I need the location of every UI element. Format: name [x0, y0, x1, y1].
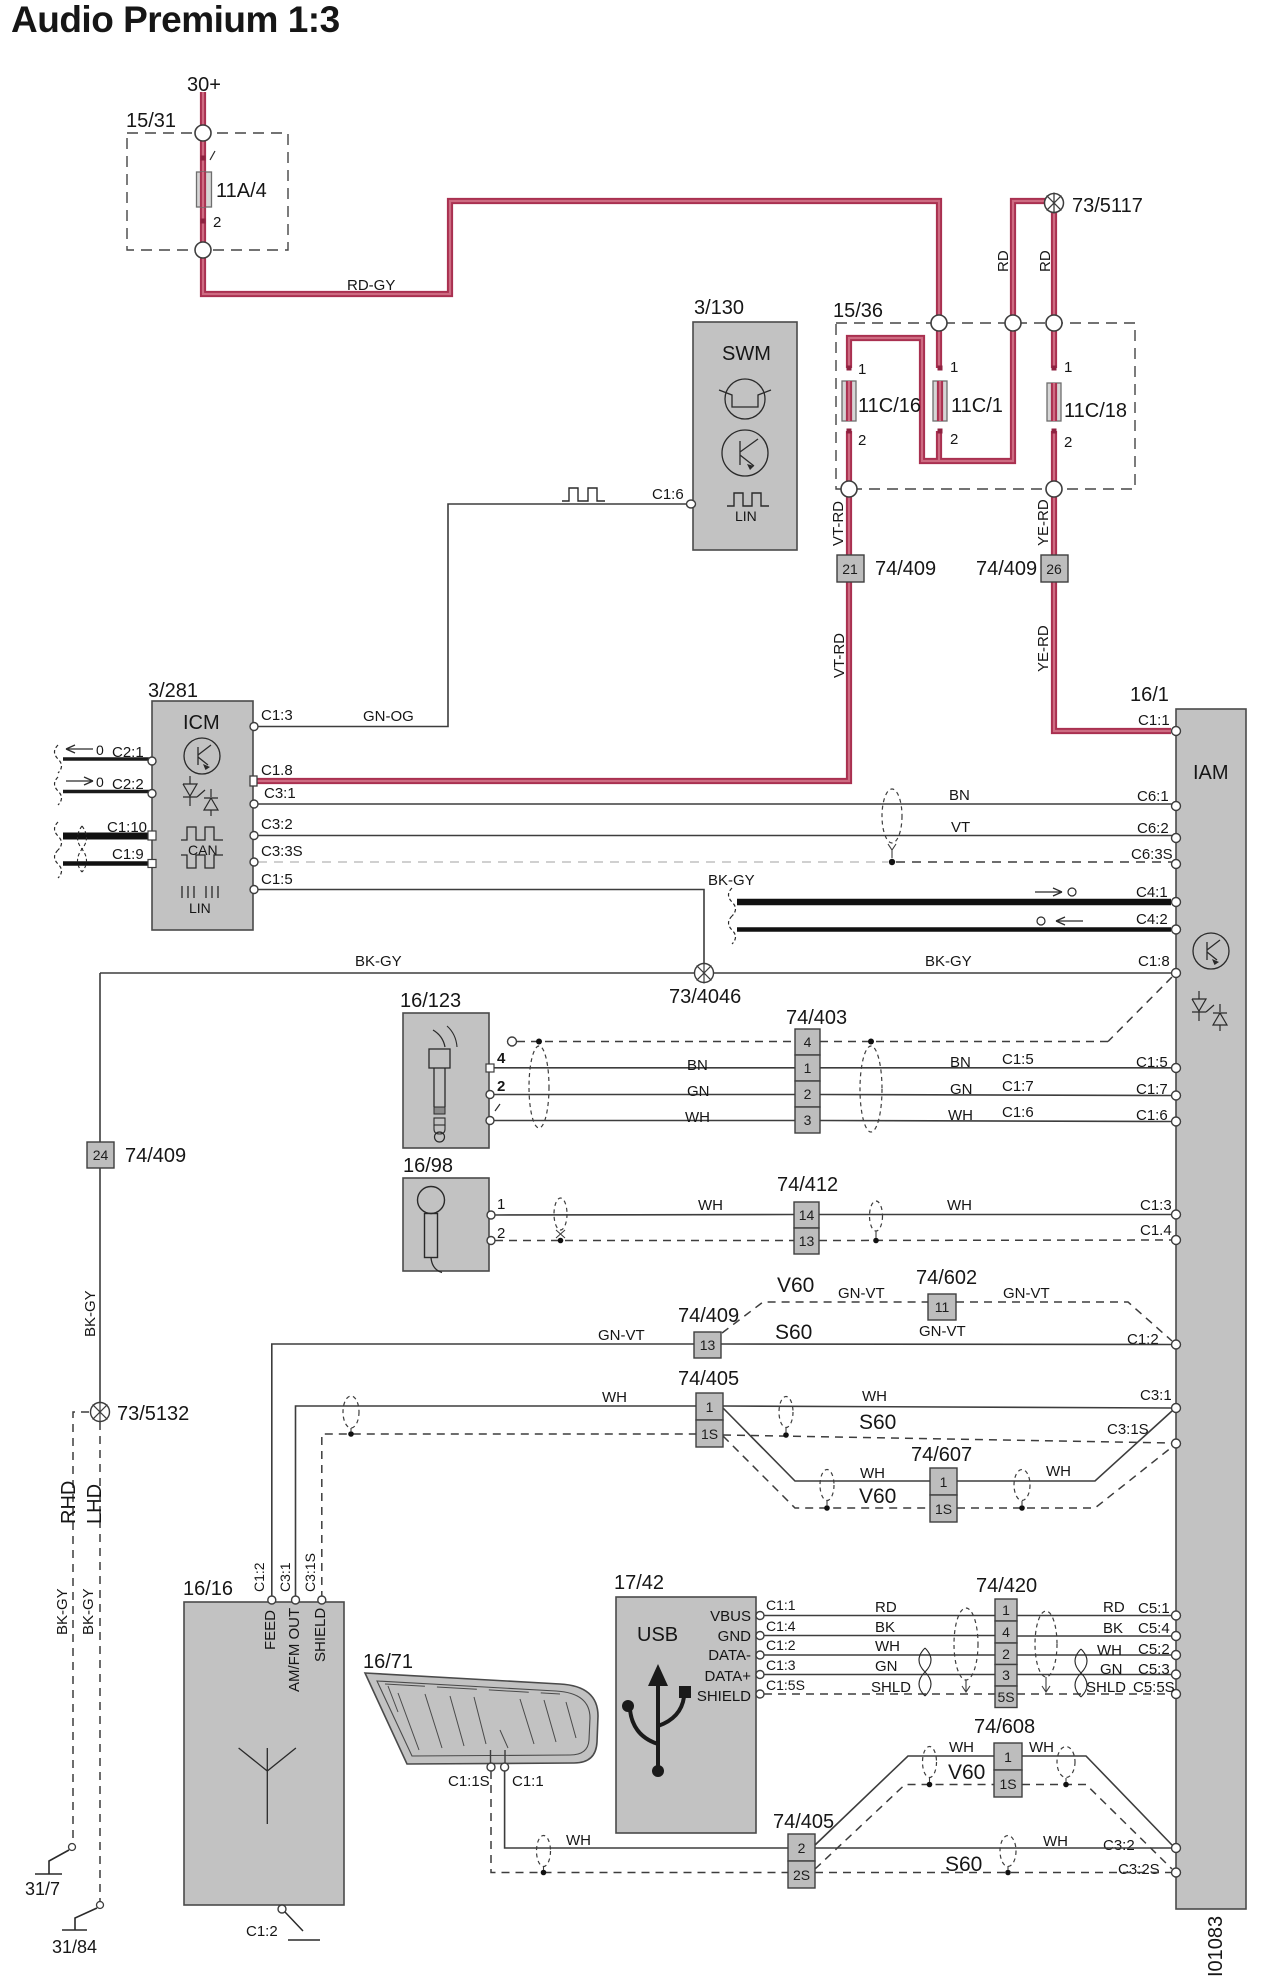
svg-text:74/409: 74/409 — [678, 1305, 739, 1327]
ICM left wire C1:10 (CAN-H) — [55, 819, 153, 850]
ICM transistor icon — [184, 738, 220, 774]
svg-text:GND: GND — [718, 1628, 752, 1645]
svg-text:2: 2 — [950, 431, 958, 448]
svg-text:31/84: 31/84 — [52, 1937, 97, 1957]
svg-text:0: 0 — [96, 742, 104, 758]
svg-text:AM/FM OUT: AM/FM OUT — [286, 1608, 303, 1692]
AUX pin 2 — [486, 1078, 505, 1099]
SWM limiter icon — [719, 379, 771, 419]
wire shield V60 branch via 74/607 (dashed) — [723, 1436, 1172, 1508]
svg-text:C1:5S: C1:5S — [766, 1677, 805, 1693]
svg-text:SHLD: SHLD — [1086, 1679, 1126, 1696]
svg-text:2: 2 — [858, 432, 866, 449]
SWM LIN icon — [727, 493, 769, 524]
wire LHD dashed to ground 31/84 — [80, 1422, 106, 1901]
wire BK-GY ICM C1:5 down to splice 73/4046 — [258, 872, 755, 963]
svg-text:BK-GY: BK-GY — [925, 953, 972, 970]
svg-text:LIN: LIN — [735, 508, 757, 524]
wire WH S60 74/405 pin2 to IAM C3:2 — [815, 1833, 1171, 1876]
svg-text:74/409: 74/409 — [976, 558, 1037, 580]
splice 73/4046 — [669, 963, 741, 1009]
wire CAN C4:1 to IAM — [729, 888, 1172, 916]
svg-text:LHD: LHD — [84, 1484, 106, 1524]
16/71 pin C1:1 — [501, 1763, 544, 1790]
ground 31/84 — [52, 1902, 104, 1958]
node circle 15/36 top c — [1046, 315, 1062, 331]
16/16 pin C3:1 — [277, 1562, 303, 1692]
wire RHD dashed to ground 31/7 — [54, 1412, 89, 1843]
svg-text:2: 2 — [1002, 1646, 1010, 1662]
svg-text:LIN: LIN — [189, 900, 211, 916]
svg-text:74/607: 74/607 — [911, 1444, 972, 1466]
shield ellipse left of 74/403 — [529, 1046, 549, 1128]
svg-text:WH: WH — [1097, 1642, 1122, 1659]
IAM transistor icon — [1193, 933, 1229, 969]
svg-text:WH: WH — [875, 1638, 900, 1655]
relay box 15/36 (dashed enclosure) — [833, 300, 1135, 489]
IAM pin C1:5 — [1136, 1054, 1181, 1073]
svg-text:2: 2 — [1064, 434, 1072, 451]
labels C1:5 C1:7 C1:6 — [1002, 1051, 1034, 1121]
svg-text:WH: WH — [948, 1107, 973, 1124]
svg-text:C3:1S: C3:1S — [1107, 1421, 1149, 1438]
svg-text:21: 21 — [842, 561, 858, 577]
svg-text:74/602: 74/602 — [916, 1267, 977, 1289]
svg-text:WH: WH — [947, 1197, 972, 1214]
ICM left wire C2:1 — [55, 742, 153, 773]
wire BN aux right to IAM C1:5 — [820, 1054, 1172, 1071]
IAM pin C4:1 — [1136, 884, 1181, 907]
IAM pin C3:2 — [1103, 1837, 1181, 1854]
svg-text:C1:3: C1:3 — [1140, 1197, 1172, 1214]
twisted pair symbol USB data left — [919, 1648, 931, 1696]
svg-text:BK: BK — [875, 1619, 895, 1636]
shield ellipse V60 bottom right — [1057, 1747, 1075, 1788]
svg-text:1S: 1S — [935, 1501, 952, 1517]
connector 1/1S of 74/607 — [911, 1444, 972, 1522]
svg-text:YE-RD: YE-RD — [1035, 625, 1052, 672]
IAM pin C3:1S — [1107, 1421, 1181, 1448]
svg-text:BK-GY: BK-GY — [82, 1290, 99, 1337]
wire GN-VT S60 74/409 pin13 to IAM C1:2 — [721, 1321, 1171, 1345]
mic pin 1 — [487, 1196, 505, 1219]
wire WH aux right to IAM C1:6 — [820, 1107, 1172, 1124]
connector 13 of 74/409 — [678, 1305, 739, 1358]
node 30+ supply label — [187, 74, 221, 96]
wire VT-RD from fuse 11C/16 to ICM C1.8 — [257, 431, 849, 781]
svg-text:16/16: 16/16 — [183, 1578, 233, 1600]
wire shield S60 74/405 pin1S to IAM C3:1S (dashed) — [723, 1435, 1171, 1443]
wire C1:6 SWM to GN-OG run — [258, 504, 687, 727]
svg-text:C3:1: C3:1 — [1140, 1387, 1172, 1404]
svg-text:C1.4: C1.4 — [1140, 1222, 1172, 1239]
svg-text:RD: RD — [995, 250, 1012, 272]
svg-text:C1:3: C1:3 — [261, 707, 293, 724]
svg-text:11C/18: 11C/18 — [1064, 400, 1127, 422]
svg-text:YE-RD: YE-RD — [1035, 499, 1052, 546]
svg-text:VT-RD: VT-RD — [830, 501, 847, 546]
svg-text:74/420: 74/420 — [976, 1575, 1037, 1597]
shield ellipse on S60 WH wire — [779, 1397, 793, 1438]
shield ellipse on BN/VT pair — [882, 789, 902, 865]
splice 73/5132 — [91, 1402, 190, 1426]
IAM pin C1:7 — [1136, 1081, 1181, 1100]
ground 31/7 — [25, 1844, 76, 1900]
USB pin SHIELD — [697, 1677, 805, 1705]
IAM pin C1.4 — [1140, 1222, 1181, 1245]
wire WH V60 branch via 74/607 — [723, 1408, 1172, 1508]
svg-text:74/405: 74/405 — [773, 1811, 834, 1833]
svg-text:15/31: 15/31 — [126, 110, 176, 132]
IAM pin C6:1 — [1137, 788, 1181, 811]
wire GN aux right to IAM C1:7 — [820, 1081, 1172, 1098]
svg-text:C1:7: C1:7 — [1002, 1078, 1034, 1095]
USB pin DATA+ — [704, 1657, 795, 1685]
svg-text:1: 1 — [940, 1474, 948, 1490]
ICM pin C1:5 — [250, 871, 293, 894]
svg-text:17/42: 17/42 — [614, 1572, 664, 1594]
svg-text:USB: USB — [637, 1624, 678, 1646]
svg-text:BK-GY: BK-GY — [54, 1588, 71, 1635]
wire label GN-OG — [363, 708, 414, 725]
antenna amplifier 16/16 — [183, 1578, 344, 1905]
IAM triac icon — [1192, 991, 1227, 1031]
svg-text:C1:1: C1:1 — [766, 1597, 796, 1613]
wire WH S60 74/405 pin1 to IAM C3:1 — [723, 1388, 1171, 1434]
svg-text:BK-GY: BK-GY — [80, 1588, 97, 1635]
16/16 pin C1:2 — [251, 1562, 279, 1650]
shield ellipse V60 right — [1014, 1470, 1030, 1511]
wire VT ICM C3:2 to IAM C6:2 — [258, 819, 1172, 836]
ICM pin C2:2 — [148, 790, 156, 798]
USB socket 17/42 — [614, 1572, 756, 1833]
wire label RD (left) — [995, 250, 1012, 272]
svg-text:S60: S60 — [775, 1321, 812, 1344]
svg-text:WH: WH — [1029, 1739, 1054, 1756]
svg-text:74/403: 74/403 — [786, 1007, 847, 1029]
svg-text:WH: WH — [862, 1388, 887, 1405]
wire BK-GY horizontal run to IAM C1:8 — [100, 953, 1172, 973]
wire mic shield right to IAM C1.4 (dashed) — [819, 1239, 1172, 1242]
USB pin VBUS — [710, 1597, 796, 1625]
svg-text:11: 11 — [935, 1299, 950, 1315]
svg-text:31/7: 31/7 — [25, 1879, 60, 1899]
svg-text:SHIELD: SHIELD — [697, 1688, 751, 1705]
svg-text:WH: WH — [566, 1832, 591, 1849]
control module SWM 3/130 — [693, 297, 797, 550]
svg-text:73/4046: 73/4046 — [669, 986, 741, 1008]
svg-text:WH: WH — [698, 1197, 723, 1214]
window antenna 16/71 — [363, 1651, 598, 1764]
wire shield dashed diagonal from IAM C1:8 to 74/403 row — [1108, 977, 1172, 1042]
svg-text:ICM: ICM — [183, 712, 220, 734]
connector 21 of 74/409 — [837, 555, 936, 582]
svg-text:GN: GN — [950, 1081, 973, 1098]
svg-text:BK-GY: BK-GY — [355, 953, 402, 970]
svg-text:C1:1: C1:1 — [1138, 712, 1170, 729]
fuse 11A/4 — [197, 151, 267, 231]
svg-text:15/36: 15/36 — [833, 300, 883, 322]
svg-text:14: 14 — [799, 1207, 815, 1223]
splice 73/5117 — [1045, 193, 1143, 218]
svg-text:74/409: 74/409 — [125, 1145, 186, 1167]
wire WH USB DATA- to IAM C5:2 — [764, 1638, 1172, 1659]
SWM pin C1:6 — [652, 486, 696, 508]
AUX plug icon — [429, 1026, 457, 1142]
svg-text:73/5117: 73/5117 — [1072, 195, 1143, 217]
svg-text:WH: WH — [949, 1739, 974, 1756]
svg-text:2: 2 — [213, 214, 221, 231]
svg-text:BN: BN — [950, 1054, 971, 1071]
svg-text:C3:2: C3:2 — [1103, 1837, 1135, 1854]
wire BN ICM C3:1 to IAM C6:1 — [258, 787, 1172, 804]
svg-text:V60: V60 — [948, 1761, 985, 1784]
svg-text:3/281: 3/281 — [148, 680, 198, 702]
wire WH 16/71 C1:1 down to 74/405 pin2 — [505, 1771, 788, 1849]
wire BK USB GND to IAM C5:4 — [764, 1619, 1172, 1637]
svg-text:BN: BN — [949, 787, 970, 804]
wire shield 16/71 C1:1S down to 74/405 pin2S (dashed) — [491, 1771, 788, 1873]
svg-text:C5:1: C5:1 — [1138, 1600, 1170, 1617]
svg-text:C4:1: C4:1 — [1136, 884, 1168, 901]
svg-text:1: 1 — [804, 1060, 812, 1076]
svg-text:2: 2 — [497, 1225, 505, 1242]
svg-text:WH: WH — [1046, 1463, 1071, 1480]
IAM pin C5:3 — [1138, 1661, 1181, 1679]
fuse 11C/1 — [933, 359, 1003, 448]
wire BN aux left — [494, 1057, 795, 1074]
svg-text:C2:1: C2:1 — [112, 744, 144, 761]
ICM pin C1.8 — [250, 762, 293, 786]
svg-text:C1:6: C1:6 — [652, 486, 684, 503]
connector 2/2S of 74/405 — [773, 1811, 834, 1888]
svg-text:C1:9: C1:9 — [112, 846, 144, 863]
svg-text:C3:2: C3:2 — [261, 816, 293, 833]
svg-text:C1:8: C1:8 — [1138, 953, 1170, 970]
svg-text:C4:2: C4:2 — [1136, 911, 1168, 928]
svg-text:V60: V60 — [859, 1485, 896, 1508]
svg-text:GN: GN — [875, 1658, 898, 1675]
wire WH 16/16 C3:1 to 74/405 pin1 — [296, 1389, 697, 1599]
svg-text:1: 1 — [1064, 359, 1072, 376]
shield ellipse right of 74/403 — [860, 1046, 882, 1132]
shield ellipse mic right — [870, 1201, 883, 1243]
ICM pin C1:9 — [148, 860, 156, 868]
shield ellipse V60 bottom left — [923, 1747, 937, 1788]
svg-text:WH: WH — [602, 1389, 627, 1406]
svg-text:74/409: 74/409 — [875, 558, 936, 580]
wire RD supply 30+ to fuse 11A/4 and RD-GY run to 15/36 and splice 73/5117 — [203, 92, 1171, 731]
svg-text:RD: RD — [875, 1599, 897, 1616]
16/16 antenna icon — [239, 1748, 296, 1824]
svg-text:V60: V60 — [777, 1274, 814, 1297]
IAM pin C5:2 — [1138, 1641, 1181, 1660]
svg-text:C3:2S: C3:2S — [1118, 1861, 1160, 1878]
connector 74/403 — [786, 1007, 847, 1133]
shield ellipse USB left — [954, 1608, 978, 1692]
svg-text:13: 13 — [700, 1337, 716, 1353]
connector 74/412 — [777, 1174, 838, 1254]
svg-text:GN-VT: GN-VT — [1003, 1285, 1050, 1302]
16/16 bottom pin C1:2 to chassis ground — [246, 1905, 320, 1940]
svg-text:GN-VT: GN-VT — [598, 1327, 645, 1344]
svg-text:SHIELD: SHIELD — [312, 1608, 329, 1662]
svg-text:1S: 1S — [701, 1426, 718, 1442]
shield ellipse on 16/16 WH wire — [343, 1396, 359, 1437]
svg-text:FEED: FEED — [262, 1610, 279, 1650]
svg-text:C1:2: C1:2 — [251, 1562, 267, 1592]
svg-text:C6:1: C6:1 — [1137, 788, 1169, 805]
svg-text:WH: WH — [685, 1109, 710, 1126]
svg-text:BK-GY: BK-GY — [708, 872, 755, 889]
svg-text:74/412: 74/412 — [777, 1174, 838, 1196]
svg-text:C1:10: C1:10 — [107, 819, 147, 836]
node circle 15/36 top a — [931, 315, 947, 331]
svg-text:0: 0 — [96, 774, 104, 790]
svg-text:2S: 2S — [793, 1867, 810, 1883]
fuse box 15/31 (dashed enclosure) — [126, 110, 288, 250]
wire mic shield left (dashed) — [495, 1240, 794, 1242]
wire label RD-GY — [347, 277, 395, 294]
svg-text:GN-VT: GN-VT — [919, 1323, 966, 1340]
connector 11 of 74/602 — [916, 1267, 977, 1320]
svg-text:Audio Premium 1:3: Audio Premium 1:3 — [11, 0, 340, 40]
connector 26 of 74/409 — [976, 555, 1068, 582]
ICM pin C3:3S — [250, 843, 303, 866]
svg-text:I01083: I01083 — [1205, 1916, 1227, 1977]
node circle 15/36 bottom b — [1046, 481, 1062, 497]
USB trident icon — [622, 1664, 691, 1777]
svg-text:2: 2 — [497, 1078, 505, 1095]
node circle at 15/31 bottom — [195, 242, 211, 258]
svg-text:C5:4: C5:4 — [1138, 1620, 1170, 1637]
svg-text:C3:3S: C3:3S — [261, 843, 303, 860]
ICM pin C1:10 — [148, 831, 156, 840]
svg-text:3: 3 — [1002, 1667, 1010, 1683]
wire GN USB DATA+ to IAM C5:3 — [764, 1658, 1172, 1678]
svg-text:73/5132: 73/5132 — [117, 1403, 189, 1425]
svg-text:S60: S60 — [859, 1411, 896, 1434]
svg-text:C1:3: C1:3 — [766, 1657, 796, 1673]
svg-text:C1:2: C1:2 — [766, 1637, 796, 1653]
svg-text:C3:1: C3:1 — [264, 785, 296, 802]
svg-text:2: 2 — [798, 1840, 806, 1856]
svg-text:16/123: 16/123 — [400, 990, 461, 1012]
IAM pin C5:4 — [1138, 1620, 1181, 1641]
svg-text:3: 3 — [804, 1112, 812, 1128]
svg-text:4: 4 — [804, 1034, 812, 1050]
svg-text:74/608: 74/608 — [974, 1716, 1035, 1738]
svg-text:RD-GY: RD-GY — [347, 277, 395, 294]
svg-text:1: 1 — [1004, 1749, 1012, 1765]
svg-text:C3:1S: C3:1S — [302, 1553, 318, 1592]
svg-text:C1:6: C1:6 — [1002, 1104, 1034, 1121]
shield ellipse mic left — [554, 1198, 567, 1243]
control module ICM 3/281 — [148, 680, 253, 930]
svg-text:11C/1: 11C/1 — [951, 395, 1003, 417]
wire RD USB VBUS to IAM C5:1 — [764, 1599, 1172, 1616]
svg-text:C1:1: C1:1 — [512, 1773, 544, 1790]
wire shield 16/16 C3:1S to 74/405 pin1S (dashed) — [322, 1434, 696, 1599]
svg-text:C1:2: C1:2 — [246, 1923, 278, 1940]
IAM pin C1:8 — [1138, 953, 1181, 978]
svg-text:RD: RD — [1103, 1599, 1125, 1616]
USB pin GND — [718, 1618, 796, 1645]
SWM transistor icon — [722, 430, 768, 476]
svg-text:BN: BN — [687, 1057, 708, 1074]
svg-text:1: 1 — [858, 361, 866, 378]
ICM CAN icon — [181, 827, 223, 868]
svg-text:1S: 1S — [999, 1776, 1016, 1792]
ICM pin C2:1 — [148, 757, 156, 765]
svg-text:1: 1 — [706, 1399, 714, 1415]
svg-text:4: 4 — [497, 1050, 506, 1067]
wire CAN C4:2 to IAM — [729, 916, 1172, 944]
svg-text:26: 26 — [1046, 561, 1062, 577]
ICM left wire C1:9 (CAN-L) — [55, 846, 153, 878]
svg-text:C2:2: C2:2 — [112, 776, 144, 793]
USB pin DATA- — [708, 1637, 796, 1664]
ICM pin C1:3 — [250, 707, 293, 731]
wire WH V60 branch via 74/608 — [815, 1739, 1172, 1845]
ICM pin C3:1 — [250, 785, 296, 808]
ICM LIN icon — [182, 886, 218, 916]
svg-text:C5:3: C5:3 — [1138, 1661, 1170, 1678]
connector 74/420 — [976, 1575, 1037, 1708]
audio module IAM 16/1 — [1130, 684, 1246, 1909]
svg-text:RD: RD — [1037, 250, 1054, 272]
svg-text:11C/16: 11C/16 — [858, 395, 921, 417]
connector 24 of 74/409 — [87, 1142, 186, 1168]
wire shield dashed 16/123 row — [508, 1037, 1109, 1046]
IAM pin C6:3S — [1131, 846, 1181, 869]
wire label RD (right) — [1037, 250, 1054, 272]
mic pin 2 — [487, 1225, 505, 1245]
wire GN aux left — [494, 1083, 795, 1100]
svg-text:C1:5: C1:5 — [1002, 1051, 1034, 1068]
svg-text:SWM: SWM — [722, 343, 771, 365]
svg-text:WH: WH — [860, 1465, 885, 1482]
svg-text:VBUS: VBUS — [710, 1608, 751, 1625]
svg-text:C6:3S: C6:3S — [1131, 846, 1173, 863]
AUX pin 4 — [486, 1050, 506, 1072]
svg-text:2: 2 — [804, 1086, 812, 1102]
svg-text:VT-RD: VT-RD — [831, 633, 848, 678]
svg-text:GN-VT: GN-VT — [838, 1285, 885, 1302]
svg-text:1: 1 — [950, 359, 958, 376]
svg-text:C1:1S: C1:1S — [448, 1773, 490, 1790]
fuse 11C/18 — [1047, 359, 1127, 451]
svg-text:11A/4: 11A/4 — [216, 180, 267, 202]
LIN pulse symbol on C1:6 wire — [562, 488, 605, 501]
wire label VT-RD lower — [831, 633, 848, 678]
ICM pin C3:2 — [250, 816, 293, 840]
svg-text:16/1: 16/1 — [1130, 684, 1169, 706]
twisted pair symbol on C1:10/C1:9 — [78, 826, 87, 872]
wire GN-VT V60 branch via 74/602 (dashed) — [722, 1274, 1172, 1341]
wire shield V60 branch via 74/608 (dashed) — [815, 1785, 1172, 1870]
wire shield S60 74/405 pin2S to IAM C3:2S (dashed) — [815, 1872, 1171, 1874]
ICM left wire C2:2 — [55, 774, 153, 805]
node circle 15/36 bottom a — [841, 481, 857, 497]
wire label VT-RD upper — [830, 501, 847, 546]
svg-text:C1.8: C1.8 — [261, 762, 293, 779]
svg-text:3/130: 3/130 — [694, 297, 744, 319]
twisted pair symbol USB data right — [1075, 1649, 1087, 1697]
svg-text:IAM: IAM — [1193, 762, 1229, 784]
svg-text:SHLD: SHLD — [871, 1679, 911, 1696]
microphone icon — [418, 1187, 445, 1273]
